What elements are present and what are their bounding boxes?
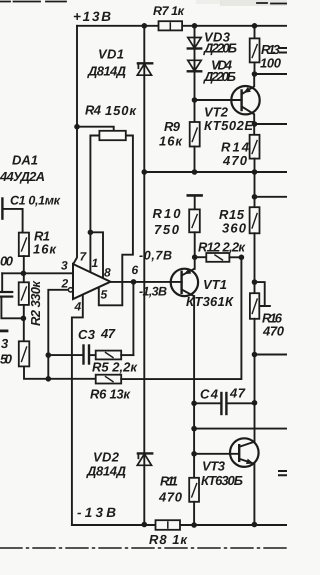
svg-text:44УД2А: 44УД2А [0, 169, 45, 184]
capacitor C2 (cut at edge) [1, 273, 3, 291]
wire pin 3 input [2, 272, 73, 274]
wire R4 left lead [90, 136, 99, 233]
node bus/top rail [142, 23, 148, 29]
wire C3 row left [48, 354, 82, 356]
node VT3 base tap [191, 451, 197, 457]
zener VD1 [137, 64, 151, 75]
svg-text:Д220Б: Д220Б [203, 69, 236, 84]
svg-text:-0,7В: -0,7В [139, 249, 172, 263]
node R12 right / R6 riser [239, 254, 245, 260]
trimmer R16 470 wiper arm [255, 282, 265, 306]
svg-text:-1,3В: -1,3В [139, 285, 167, 299]
transistor VT2 KT502E (PNP) [242, 74, 255, 94]
wire R1-R2 [23, 256, 25, 282]
svg-text:150к: 150к [105, 103, 137, 118]
svg-text:3: 3 [1, 336, 9, 351]
node mid rail / R14 / R15 [252, 169, 258, 175]
node rail / R11 [191, 522, 197, 528]
svg-text:00: 00 [0, 254, 14, 269]
svg-text:R7 1к: R7 1к [153, 4, 185, 18]
svg-text:Д814Д: Д814Д [86, 464, 127, 479]
svg-text:16к: 16к [33, 242, 57, 257]
node pin3/R1/R2 [21, 271, 27, 277]
svg-text:R10: R10 [153, 206, 182, 221]
resistor R12 2.2k [195, 256, 207, 258]
node mid rail / R9 / R10 [192, 169, 198, 175]
svg-text:16к: 16к [159, 134, 183, 149]
transistor VT1 KT361K (PNP) [182, 269, 195, 276]
node rail / zener bus [142, 522, 148, 528]
+13V top rail [77, 25, 287, 27]
node pin2/C3 [46, 352, 52, 358]
top frame dashed line [0, 2, 287, 4]
node R4 tap on bus [74, 124, 80, 130]
emitter line VT1 / node R12 [192, 254, 198, 260]
svg-text:8: 8 [104, 266, 111, 280]
node VD4 / VT2 base / R9 [192, 97, 198, 103]
wire VT2 base [195, 99, 242, 101]
node R13 / VT2 emitter, wire to edge [252, 71, 258, 77]
resistor R7 1k [159, 21, 183, 30]
svg-text:3: 3 [61, 259, 68, 273]
svg-text:VT3: VT3 [202, 459, 226, 474]
node pin2/R6/R3 [46, 376, 52, 382]
wire pin 4 to -13V bus [72, 294, 83, 525]
svg-text:Д220Б: Д220Б [203, 41, 237, 56]
node C2/R3 junction [21, 316, 27, 322]
resistor R8 1k [156, 520, 181, 530]
resistor R14 470 [250, 135, 260, 159]
svg-text:R6 13к: R6 13к [90, 387, 131, 402]
zener VD2 [137, 454, 151, 465]
svg-text:С3: С3 [78, 327, 96, 342]
resistor R1 16k [19, 233, 29, 257]
bottom frame dash-dot line [0, 547, 287, 549]
svg-text:КТ630Б: КТ630Б [201, 473, 243, 488]
wire VT1 collector chain down [193, 296, 195, 478]
svg-text:VT1: VT1 [203, 277, 227, 292]
node / wire to right edge (y=428.6) [191, 426, 197, 432]
diode VD4 [188, 60, 201, 71]
node C4 right [252, 400, 258, 406]
left supply bus (pin 7) [73, 26, 77, 264]
diode VD3 [188, 38, 201, 49]
svg-text:2: 2 [61, 277, 69, 291]
diode string wire [194, 26, 196, 122]
svg-text:4: 4 [74, 300, 82, 314]
node R15 / R16 wiper [252, 279, 258, 285]
svg-text:1: 1 [92, 256, 99, 270]
resistor R6 13k [48, 378, 95, 380]
opamp output wire [111, 281, 182, 283]
svg-text:С1 0,1мк: С1 0,1мк [10, 194, 61, 208]
svg-text:R5 2,2к: R5 2,2к [92, 360, 138, 375]
svg-text:47: 47 [100, 326, 116, 341]
resistor R3 (cut label 3 / 50) [19, 341, 30, 366]
wire R4 top tap [77, 127, 114, 131]
svg-text:R9: R9 [164, 119, 181, 134]
svg-text:Д814Д: Д814Д [87, 64, 127, 79]
node rail / VT3 emitter [252, 522, 258, 528]
op-amp DA1 triangle [73, 264, 111, 299]
svg-text:DA1: DA1 [12, 153, 38, 168]
trimmer R10 750 [188, 194, 202, 197]
node right bus / wire to edge [252, 352, 258, 358]
wire R4 right lead / compensation net [99, 136, 133, 306]
-13V bottom rail [72, 524, 287, 526]
node zener midpoint / mid rail [142, 169, 148, 175]
resistor R9 16k [190, 122, 200, 147]
node tap wire to edge [252, 194, 258, 200]
svg-text:47: 47 [229, 386, 246, 401]
wire R3 bottom L [24, 366, 48, 378]
svg-text:VD2: VD2 [93, 450, 120, 465]
svg-text:+13В: +13В [73, 9, 111, 24]
node C4 left [191, 401, 197, 407]
resistor R15 360 [250, 207, 260, 233]
svg-text:470: 470 [262, 324, 285, 339]
node pins 1/8 junction [88, 230, 94, 236]
continuation marks right edge (lower) [279, 471, 287, 475]
svg-text:360: 360 [222, 221, 247, 236]
capacitor C1 0.1uF [1, 199, 3, 219]
transistor VT3 KT630B (NPN) [239, 442, 254, 447]
svg-text:470: 470 [158, 490, 183, 505]
wire right bus to C4/VT3 [254, 355, 256, 442]
svg-text:VD1: VD1 [98, 47, 124, 62]
wire feedback riser to output [132, 282, 134, 355]
node output / feedback [131, 279, 137, 285]
capacitor C4 47 [194, 402, 220, 404]
wire pin 2 + riser [48, 290, 68, 379]
trimmer R16 body [250, 293, 259, 319]
svg-text:50: 50 [0, 352, 13, 367]
mid rail wire [144, 171, 287, 173]
svg-text:750: 750 [154, 222, 180, 237]
wire pin 8 [90, 232, 103, 278]
svg-text:КТ502Е: КТ502Е [204, 118, 253, 133]
svg-text:5: 5 [101, 288, 108, 302]
pin 2 inversion bubble [68, 288, 72, 292]
resistor R2 330k [19, 282, 29, 305]
resistor R11 470 [189, 478, 199, 502]
wire R2 bottom [23, 305, 25, 341]
node top rail / diode string [192, 23, 198, 29]
svg-text:R2 330к: R2 330к [28, 280, 43, 326]
svg-text:100: 100 [260, 56, 282, 71]
svg-text:R11: R11 [160, 474, 178, 489]
wire pin 1 [89, 232, 91, 272]
resistor R13 100 [254, 26, 256, 39]
svg-text:6: 6 [132, 263, 139, 277]
wire R6 right riser to R12 [121, 257, 241, 379]
resistor R4 150k [99, 131, 125, 140]
continuation marks beside R13 [280, 48, 287, 53]
zener bus VD1/VD2 [143, 26, 145, 525]
svg-text:R4: R4 [85, 103, 102, 118]
svg-text:470: 470 [222, 153, 248, 168]
node VT2 collector / wire to edge [252, 121, 258, 127]
svg-text:С4: С4 [200, 387, 219, 402]
stub mark at left edge [0, 329, 7, 332]
svg-text:R8 1к: R8 1к [149, 532, 188, 547]
capacitor C3 47 [82, 346, 84, 364]
resistor R5 2.2k [96, 351, 122, 360]
svg-text:R12 2,2к: R12 2,2к [198, 240, 246, 255]
wire VT3 base [194, 453, 239, 455]
